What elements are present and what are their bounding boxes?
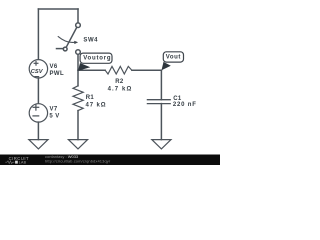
resistor R1 bbox=[73, 86, 83, 111]
node Voutorg callout bbox=[78, 53, 112, 71]
svg-text:Vout: Vout bbox=[166, 55, 181, 61]
svg-text:SW4: SW4 bbox=[83, 38, 98, 44]
wire R2 to node Vout bbox=[132, 69, 162, 71]
wire node Voutorg to R2 bbox=[78, 69, 105, 71]
svg-text:Voutorg: Voutorg bbox=[83, 56, 111, 62]
svg-text:V6: V6 bbox=[50, 64, 58, 70]
svg-text:5 V: 5 V bbox=[49, 113, 59, 119]
watermark footer bar bbox=[0, 154, 220, 165]
capacitor C1 bbox=[147, 100, 170, 104]
svg-text:C1: C1 bbox=[173, 96, 182, 102]
wire top horizontal bbox=[38, 8, 78, 10]
svg-text:PWL: PWL bbox=[50, 71, 65, 77]
ground (R1 branch) bbox=[68, 140, 87, 149]
svg-text:LAB: LAB bbox=[19, 161, 27, 165]
wire switch to node Voutorg bbox=[77, 54, 79, 70]
svg-text:CSV: CSV bbox=[31, 69, 44, 75]
wire C1 to ground bbox=[160, 104, 162, 140]
wire node Voutorg to R1 bbox=[77, 70, 79, 86]
svg-text:4.7 kΩ: 4.7 kΩ bbox=[108, 87, 133, 93]
ground (V7 branch) bbox=[29, 140, 48, 149]
voltage source V6 (CSV PWL) bbox=[29, 60, 47, 78]
wire V7 to ground bbox=[37, 122, 39, 140]
svg-text:R2: R2 bbox=[115, 79, 124, 85]
resistor R2 bbox=[105, 66, 132, 74]
wire node Vout down to C1 bbox=[160, 70, 162, 99]
node Vout callout bbox=[162, 52, 184, 71]
svg-text:V7: V7 bbox=[50, 106, 58, 112]
wire left vertical (top to V6) bbox=[37, 9, 39, 60]
wire switch SW4 top lead bbox=[77, 9, 79, 23]
svg-text:http://circuitlab.com/c/qnbdx4: http://circuitlab.com/c/qnbdx413qyr bbox=[45, 158, 111, 163]
ground (C1 branch) bbox=[152, 140, 171, 149]
svg-text:47 kΩ: 47 kΩ bbox=[86, 102, 107, 108]
voltage source V7 bbox=[29, 104, 47, 122]
switch SW4 bbox=[57, 23, 81, 54]
svg-text:220 nF: 220 nF bbox=[173, 102, 197, 108]
svg-text:R1: R1 bbox=[86, 95, 95, 101]
wire R1 to ground bbox=[77, 111, 79, 140]
wire V6 to V7 bbox=[37, 78, 39, 104]
